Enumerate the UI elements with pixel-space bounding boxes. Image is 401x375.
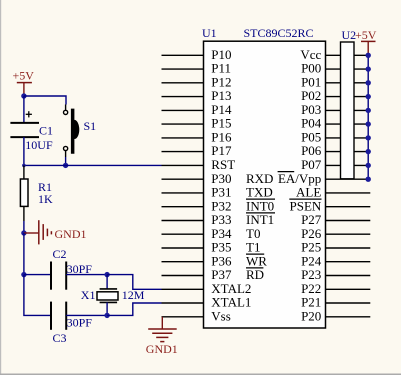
screenshot edge border bbox=[0, 0, 1, 375]
node: R1 / GND1 / C2 junction bbox=[21, 230, 26, 235]
svg-text:T0: T0 bbox=[246, 226, 260, 241]
U1 right pin stubs (pins Vcc..P20) bbox=[326, 55, 371, 317]
svg-text:P15: P15 bbox=[211, 116, 231, 131]
wire: C2 right plate to crystal top node bbox=[66, 274, 107, 276]
+5V power bar symbol (left) bbox=[17, 82, 32, 84]
svg-text:INT0: INT0 bbox=[246, 198, 274, 213]
svg-text:XTAL1: XTAL1 bbox=[211, 295, 251, 310]
wire: crystal bottom node to U1 XTAL1 bbox=[107, 303, 161, 315]
wire: crystal top node to X1 bbox=[106, 275, 108, 289]
svg-text:P02: P02 bbox=[301, 88, 321, 103]
svg-text:P36: P36 bbox=[211, 253, 232, 268]
svg-text:WR: WR bbox=[246, 253, 267, 268]
svg-text:1K: 1K bbox=[38, 192, 53, 206]
capacitor C3 right plate bbox=[65, 302, 67, 330]
svg-text:PSEN: PSEN bbox=[290, 198, 322, 213]
svg-text:C2: C2 bbox=[53, 247, 67, 261]
svg-text:X1: X1 bbox=[81, 288, 96, 302]
U1 overline for EA (of EA/Vpp) bbox=[278, 171, 295, 173]
svg-text:P04: P04 bbox=[301, 116, 322, 131]
svg-text:P01: P01 bbox=[301, 74, 321, 89]
capacitor C2 left plate bbox=[50, 262, 52, 290]
node: RST tee junction bbox=[22, 164, 26, 168]
U1 right pin name labels bbox=[278, 47, 322, 324]
node: +5V / C1 / S1 junction bbox=[21, 93, 26, 98]
svg-text:Vss: Vss bbox=[211, 308, 231, 323]
svg-text:U2: U2 bbox=[342, 28, 357, 42]
GND1 ground bars (left) bbox=[39, 220, 52, 244]
svg-text:P34: P34 bbox=[211, 226, 232, 241]
svg-text:P21: P21 bbox=[301, 295, 321, 310]
node: crystal bottom junction bbox=[104, 313, 109, 318]
node: C2 / C3 branch junction bbox=[21, 272, 26, 277]
wire: R1 bottom to GND1 junction bbox=[23, 221, 25, 233]
C1 polarity + sign bbox=[26, 111, 32, 117]
svg-text:P37: P37 bbox=[211, 267, 232, 282]
capacitor C1 bottom plate bbox=[10, 136, 39, 138]
svg-text:P07: P07 bbox=[301, 157, 322, 172]
svg-text:RD: RD bbox=[246, 267, 264, 282]
wire: C3 right plate to crystal bottom node bbox=[66, 314, 107, 316]
svg-text:P20: P20 bbox=[301, 308, 321, 323]
crystal X1 bottom plate bbox=[100, 301, 118, 303]
svg-text:C3: C3 bbox=[53, 331, 67, 345]
svg-text:P32: P32 bbox=[211, 198, 231, 213]
R1 bottom pin lead bbox=[23, 206, 25, 221]
wire: left rail down and right to C3 left plate bbox=[24, 275, 51, 316]
S1 top pin lead bbox=[65, 105, 67, 111]
+5V power stem (left) bbox=[23, 83, 25, 96]
wire: RST net (left rail to U1 RST pin) bbox=[24, 164, 162, 166]
svg-text:10UF: 10UF bbox=[25, 138, 53, 152]
switch S1 bottom terminal bbox=[64, 146, 68, 150]
capacitor C1 top plate bbox=[10, 122, 39, 124]
+5V power bar symbol (right) bbox=[361, 40, 376, 42]
connector U2 body bbox=[341, 42, 355, 179]
GND1 ground stem (Vss) bbox=[161, 317, 163, 329]
resistor R1 body bbox=[20, 179, 28, 206]
svg-text:+5V: +5V bbox=[13, 68, 35, 82]
IC U1 STC89C52RC body bbox=[204, 41, 326, 328]
node: S1 / RST wire junction bbox=[63, 163, 68, 168]
svg-text:S1: S1 bbox=[84, 119, 97, 133]
svg-text:Vcc: Vcc bbox=[300, 47, 321, 62]
node: crystal top junction bbox=[104, 272, 109, 277]
svg-text:P23: P23 bbox=[301, 267, 321, 282]
svg-text:GND1: GND1 bbox=[55, 227, 87, 241]
svg-text:ALE: ALE bbox=[296, 185, 321, 200]
wire: +5V junction to S1 top bbox=[24, 96, 66, 105]
+5V power stem (right) bbox=[367, 41, 369, 55]
svg-text:P17: P17 bbox=[211, 143, 232, 158]
switch S1 actuator bbox=[71, 109, 79, 154]
GND1 ground bars (Vss) bbox=[148, 329, 177, 342]
svg-text:RST: RST bbox=[211, 157, 235, 172]
wire: junction down to C2 junction bbox=[23, 233, 25, 275]
crystal X1 body bbox=[97, 292, 118, 300]
crystal X1 top plate bbox=[100, 288, 118, 290]
svg-text:U1: U1 bbox=[202, 26, 217, 40]
capacitor C2 right plate bbox=[65, 262, 67, 290]
svg-text:P06: P06 bbox=[301, 143, 322, 158]
+5V vertical rail wire (right) bbox=[367, 55, 369, 179]
wire: junction to C2 left plate bbox=[24, 274, 51, 276]
GND1 ground stem (left) bbox=[24, 232, 39, 234]
svg-text:GND1: GND1 bbox=[146, 342, 178, 356]
switch S1 top terminal bbox=[64, 110, 68, 114]
U1 left pin name labels bbox=[211, 47, 274, 324]
junction dots on +5V rail (Vcc..EA/Vpp) bbox=[366, 53, 371, 182]
svg-text:P24: P24 bbox=[301, 253, 322, 268]
svg-text:P12: P12 bbox=[211, 74, 231, 89]
svg-text:P10: P10 bbox=[211, 47, 231, 62]
U1 left pin stubs (pins P10..Vss) bbox=[162, 55, 204, 317]
wire: X1 bottom to crystal bottom node bbox=[106, 302, 108, 315]
svg-text:P13: P13 bbox=[211, 88, 231, 103]
wire: S1 bottom to RST net bbox=[65, 157, 67, 165]
svg-text:TXD: TXD bbox=[246, 185, 273, 200]
R1 top pin lead bbox=[23, 165, 25, 179]
svg-text:STC89C52RC: STC89C52RC bbox=[244, 26, 314, 40]
capacitor C3 left plate bbox=[50, 302, 52, 330]
wire: +5V junction down to C1 + plate bbox=[23, 96, 25, 123]
wire: crystal top node to U1 XTAL2 bbox=[107, 275, 161, 290]
S1 bottom pin lead bbox=[65, 151, 67, 157]
U1 overline for PSEN bbox=[289, 198, 321, 200]
svg-text:P31: P31 bbox=[211, 185, 231, 200]
svg-text:30PF: 30PF bbox=[67, 315, 93, 329]
svg-text:P26: P26 bbox=[301, 226, 322, 241]
U1 active-low overlines (INT0, INT1, WR, RD) bbox=[246, 199, 275, 268]
svg-text:+5V: +5V bbox=[355, 28, 377, 42]
wire: C1 bottom plate to RST net bbox=[23, 137, 25, 165]
svg-text:C1: C1 bbox=[39, 123, 53, 137]
